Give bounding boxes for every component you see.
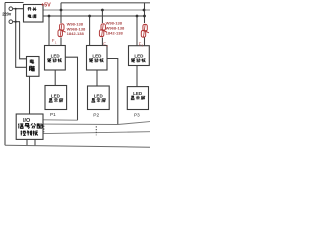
svg-text:I/O: I/O <box>23 118 31 124</box>
svg-text:P2: P2 <box>93 112 99 118</box>
svg-text:LED: LED <box>133 91 143 96</box>
svg-text:220v: 220v <box>2 12 12 17</box>
svg-text:P3: P3 <box>134 113 140 118</box>
svg-text:1842-138: 1842-138 <box>67 31 85 36</box>
svg-text:LED: LED <box>92 54 102 59</box>
svg-text:LED: LED <box>94 93 104 98</box>
svg-text:1: 1 <box>55 40 57 44</box>
svg-text:+5V: +5V <box>41 2 51 8</box>
svg-text:LED: LED <box>51 93 61 98</box>
svg-text:2: 2 <box>106 44 108 48</box>
svg-text:P1: P1 <box>50 112 56 117</box>
svg-text:1842-138: 1842-138 <box>106 31 124 36</box>
svg-text:LED: LED <box>51 54 61 59</box>
svg-text:W968-138: W968-138 <box>106 25 125 30</box>
svg-text:LED: LED <box>134 54 144 59</box>
